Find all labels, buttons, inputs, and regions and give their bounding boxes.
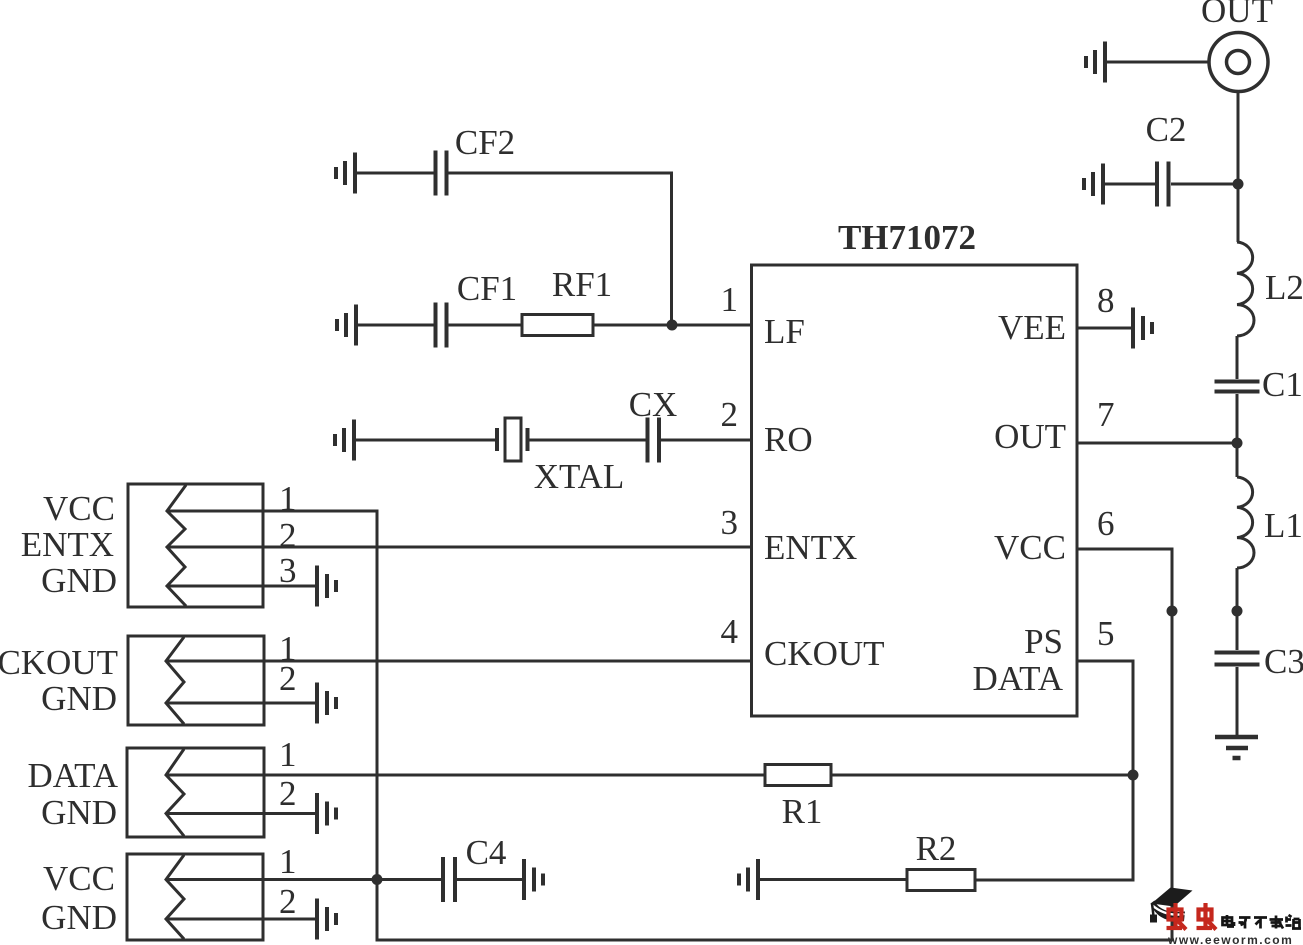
svg-text:GND: GND xyxy=(41,898,117,937)
svg-text:C3: C3 xyxy=(1264,642,1303,681)
svg-text:C2: C2 xyxy=(1146,110,1187,149)
svg-text:5: 5 xyxy=(1097,614,1115,653)
svg-text:VCC: VCC xyxy=(43,859,115,898)
svg-text:OUT: OUT xyxy=(994,417,1066,456)
svg-text:C1: C1 xyxy=(1262,365,1303,404)
svg-text:CKOUT: CKOUT xyxy=(764,634,885,673)
svg-text:ENTX: ENTX xyxy=(764,528,857,567)
svg-text:RO: RO xyxy=(764,420,813,459)
svg-text:C4: C4 xyxy=(466,833,507,872)
svg-text:7: 7 xyxy=(1097,395,1115,434)
svg-text:4: 4 xyxy=(721,612,739,651)
svg-text:L2: L2 xyxy=(1265,268,1303,307)
svg-text:DATA: DATA xyxy=(972,659,1063,698)
svg-text:1: 1 xyxy=(279,842,297,881)
svg-text:VCC: VCC xyxy=(994,528,1066,567)
svg-text:CF1: CF1 xyxy=(457,269,517,308)
svg-text:GND: GND xyxy=(41,793,117,832)
svg-text:3: 3 xyxy=(279,551,297,590)
svg-text:DATA: DATA xyxy=(27,756,118,795)
svg-text:1: 1 xyxy=(279,735,297,774)
svg-text:R1: R1 xyxy=(782,792,823,831)
svg-text:LF: LF xyxy=(764,312,805,351)
svg-text:2: 2 xyxy=(279,659,297,698)
svg-text:2: 2 xyxy=(279,882,297,921)
svg-text:OUT: OUT xyxy=(1201,0,1273,30)
svg-text:TH71072: TH71072 xyxy=(838,218,976,257)
svg-text:2: 2 xyxy=(721,395,739,434)
svg-text:8: 8 xyxy=(1097,281,1115,320)
svg-text:XTAL: XTAL xyxy=(534,457,625,496)
svg-text:www.eeworm.com: www.eeworm.com xyxy=(1167,933,1293,945)
svg-text:1: 1 xyxy=(279,479,297,518)
svg-text:RF1: RF1 xyxy=(552,265,612,304)
svg-text:GND: GND xyxy=(41,561,117,600)
svg-text:1: 1 xyxy=(721,280,739,319)
svg-text:2: 2 xyxy=(279,516,297,555)
svg-text:VCC: VCC xyxy=(43,489,115,528)
svg-text:L1: L1 xyxy=(1264,506,1303,545)
svg-text:GND: GND xyxy=(41,679,117,718)
svg-text:CX: CX xyxy=(629,385,678,424)
svg-text:CKOUT: CKOUT xyxy=(0,643,118,682)
svg-text:R2: R2 xyxy=(916,829,957,868)
svg-text:ENTX: ENTX xyxy=(21,525,114,564)
svg-text:VEE: VEE xyxy=(998,308,1066,347)
svg-text:PS: PS xyxy=(1024,622,1063,661)
svg-text:3: 3 xyxy=(721,503,739,542)
svg-text:2: 2 xyxy=(279,774,297,813)
svg-text:6: 6 xyxy=(1097,504,1115,543)
svg-text:CF2: CF2 xyxy=(455,123,515,162)
